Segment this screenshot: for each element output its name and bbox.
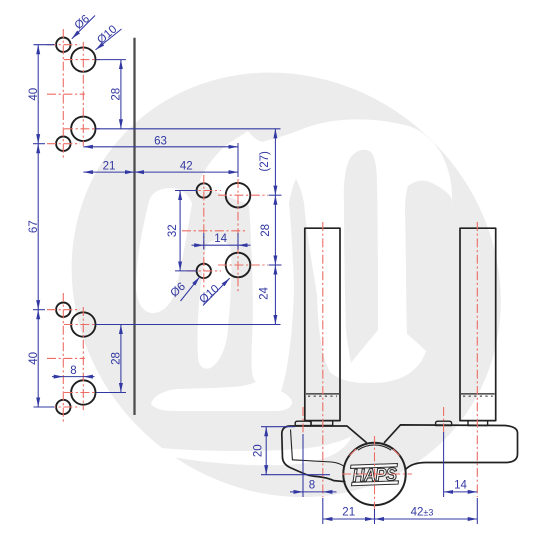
svg-text:20: 20: [253, 444, 265, 457]
svg-text:(27): (27): [259, 151, 271, 172]
svg-text:24: 24: [259, 287, 271, 300]
svg-text:28: 28: [260, 224, 272, 237]
svg-text:42: 42: [180, 161, 193, 173]
svg-text:40: 40: [28, 88, 40, 101]
svg-text:8: 8: [70, 365, 76, 377]
svg-text:28: 28: [111, 88, 123, 101]
svg-text:28: 28: [111, 352, 123, 365]
svg-text:42±3: 42±3: [411, 507, 434, 519]
svg-text:67: 67: [28, 220, 40, 233]
svg-text:40: 40: [28, 352, 40, 365]
svg-text:21: 21: [103, 161, 116, 173]
svg-text:14: 14: [214, 233, 227, 245]
svg-text:8: 8: [309, 480, 315, 492]
svg-text:63: 63: [154, 135, 167, 147]
svg-text:32: 32: [167, 224, 179, 237]
svg-text:21: 21: [342, 507, 355, 519]
svg-text:14: 14: [454, 480, 467, 492]
